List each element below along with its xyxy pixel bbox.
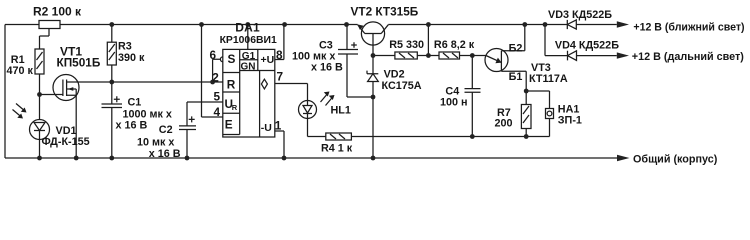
svg-text:Общий (корпус): Общий (корпус) <box>633 154 718 166</box>
svg-text:х 16 В: х 16 В <box>311 62 343 74</box>
svg-text:КС175А: КС175А <box>382 80 422 92</box>
svg-text:C1: C1 <box>128 96 142 108</box>
svg-text:DA1: DA1 <box>235 20 260 34</box>
svg-text:390 к: 390 к <box>118 52 145 64</box>
svg-text:+U: +U <box>261 54 275 66</box>
svg-text:ЗП-1: ЗП-1 <box>558 115 582 127</box>
svg-text:1: 1 <box>275 119 282 133</box>
svg-text:+12 В (дальний свет): +12 В (дальний свет) <box>632 51 745 63</box>
svg-text:5: 5 <box>214 89 221 103</box>
svg-text:Б1: Б1 <box>509 71 523 83</box>
svg-text:х 16 В: х 16 В <box>116 119 148 131</box>
svg-text:-U: -U <box>261 122 272 134</box>
svg-text:GN: GN <box>241 61 256 72</box>
svg-text:S: S <box>228 52 236 66</box>
svg-text:R6 8,2 к: R6 8,2 к <box>434 39 475 51</box>
svg-text:470 к: 470 к <box>7 65 34 77</box>
svg-text:VD4 КД522Б: VD4 КД522Б <box>555 40 619 52</box>
svg-text:R4 1 к: R4 1 к <box>321 143 353 155</box>
svg-text:ФД-К-155: ФД-К-155 <box>42 136 90 148</box>
svg-text:7: 7 <box>277 70 284 84</box>
svg-text:VD2: VD2 <box>384 68 405 80</box>
svg-text:х 16 В: х 16 В <box>149 148 181 160</box>
svg-text:R: R <box>227 78 236 92</box>
svg-text:2: 2 <box>212 71 219 85</box>
svg-text:КР1006ВИ1: КР1006ВИ1 <box>220 35 277 46</box>
svg-text:6: 6 <box>210 48 217 62</box>
svg-text:Б2: Б2 <box>509 42 523 54</box>
svg-text:10 мк х: 10 мк х <box>137 136 174 148</box>
svg-text:C2: C2 <box>159 124 173 136</box>
svg-text:КТ117А: КТ117А <box>529 73 568 85</box>
svg-text:КП501Б: КП501Б <box>57 55 101 69</box>
svg-text:200: 200 <box>495 117 513 129</box>
svg-text:G1: G1 <box>242 51 256 62</box>
svg-text:8: 8 <box>276 48 283 62</box>
svg-text:VD1: VD1 <box>56 125 77 137</box>
svg-text:VD3 КД522Б: VD3 КД522Б <box>548 9 612 21</box>
svg-text:E: E <box>225 118 233 132</box>
svg-text:R2 100 к: R2 100 к <box>33 4 82 18</box>
svg-text:+12 В (ближний свет): +12 В (ближний свет) <box>633 21 744 33</box>
svg-text:100 н: 100 н <box>440 97 468 109</box>
svg-text:R5 330: R5 330 <box>389 39 424 51</box>
svg-text:4: 4 <box>214 105 221 119</box>
svg-text:R3: R3 <box>118 40 132 52</box>
svg-text:R: R <box>232 103 238 112</box>
svg-text:HL1: HL1 <box>331 105 351 117</box>
svg-text:VT2 КТ315Б: VT2 КТ315Б <box>351 4 419 18</box>
